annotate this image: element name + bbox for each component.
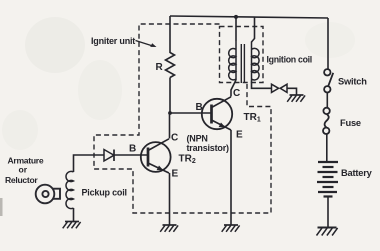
junction node primary / supply rail: [234, 15, 238, 19]
wire pickup coil to diode: [74, 155, 105, 172]
ignition coil secondary winding: [252, 42, 260, 81]
diode D1: [104, 150, 114, 162]
wire TR1 base: [170, 112, 212, 114]
wire secondary top to supply rail: [252, 17, 255, 42]
fuse: [323, 108, 330, 134]
svg-text:Igniter unit: Igniter unit: [91, 36, 135, 46]
wire TR2 collector up to node: [169, 113, 171, 139]
top supply wire: [170, 16, 328, 18]
wire suppressor to ground: [287, 88, 297, 94]
ignition coil dashed box: [220, 27, 264, 83]
transistor TR2: [141, 139, 171, 173]
svg-text:C: C: [171, 133, 178, 144]
suppressor diode pair (spark gap): [272, 84, 279, 92]
svg-text:transistor): transistor): [187, 143, 230, 153]
svg-text:Ignition coil: Ignition coil: [267, 55, 312, 65]
wire switch to fuse: [326, 92, 328, 107]
ground TR2 emitter: [160, 225, 178, 232]
battery: [317, 162, 338, 197]
ground (high tension): [287, 95, 305, 102]
wire from top rail down to resistor R: [169, 16, 171, 53]
ground pickup coil: [63, 222, 81, 229]
ignition coil primary winding: [229, 41, 236, 80]
ground TR1 emitter: [222, 225, 240, 232]
switch: [324, 69, 333, 92]
svg-text:B: B: [129, 144, 136, 155]
svg-text:Fuse: Fuse: [340, 118, 361, 128]
pickup coil: [66, 171, 74, 208]
svg-text:Reluctor: Reluctor: [5, 175, 38, 185]
resistor R: [166, 53, 175, 78]
wire supply rail down to switch: [327, 18, 329, 69]
igniter unit dashed boundary: [94, 24, 271, 213]
leader arrow to igniter unit box: [136, 41, 153, 46]
wire pickup coil to ground: [73, 208, 75, 221]
svg-text:or: or: [19, 165, 28, 175]
svg-text:Pickup coil: Pickup coil: [82, 188, 127, 198]
wire fuse to battery: [326, 134, 328, 162]
ground battery: [317, 228, 338, 236]
wire primary top to supply rail: [235, 17, 237, 41]
wire diode to TR2 base: [114, 154, 148, 156]
svg-text:C: C: [233, 88, 240, 99]
svg-text:Battery: Battery: [341, 168, 373, 178]
junction node (R / TR2 collector / TR1 base): [168, 111, 172, 115]
svg-text:B: B: [196, 102, 203, 113]
svg-text:E: E: [236, 130, 243, 141]
wire TR2 emitter to ground: [169, 173, 171, 225]
armature / reluctor: [36, 185, 60, 204]
svg-text:(NPN: (NPN: [187, 134, 208, 144]
wire TR1 collector up to primary winding: [231, 80, 236, 97]
svg-text:R: R: [156, 62, 164, 73]
wire from R down to node: [169, 78, 171, 114]
svg-text:Switch: Switch: [338, 77, 367, 87]
wire secondary bottom to suppressor diodes: [252, 81, 272, 89]
ignition coil core: [241, 44, 244, 83]
svg-text:E: E: [172, 169, 179, 180]
wire battery to ground: [327, 197, 329, 228]
transistor TR1: [202, 97, 232, 130]
wire TR1 emitter to ground: [230, 130, 232, 225]
